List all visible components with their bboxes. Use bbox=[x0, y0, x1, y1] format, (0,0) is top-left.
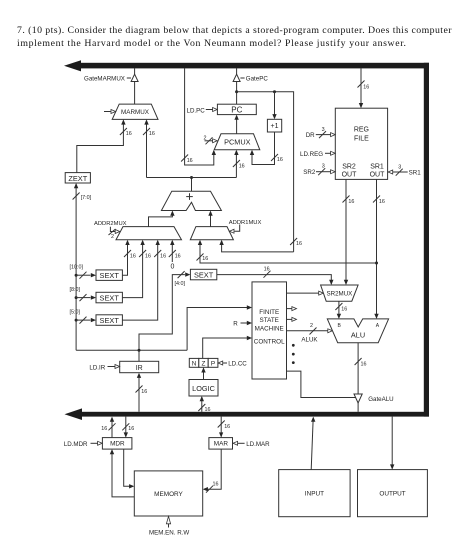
sign extender SEXT1 bbox=[96, 270, 122, 281]
svg-text:[4:0]: [4:0] bbox=[175, 281, 186, 287]
ADDR2MUX select input (2 bits) bbox=[110, 227, 115, 232]
svg-text:MEMORY: MEMORY bbox=[154, 491, 183, 498]
svg-text:LD.IR: LD.IR bbox=[89, 364, 105, 371]
wire bus down into MDR bbox=[125, 417, 127, 437]
wire bus down into MAR bbox=[220, 417, 222, 437]
wire adder output to PCMUX middle input bbox=[235, 151, 237, 178]
svg-text:SR2: SR2 bbox=[342, 163, 356, 170]
svg-text:LD.PC: LD.PC bbox=[187, 107, 206, 114]
PC register box bbox=[217, 104, 256, 114]
control ellipsis dots bbox=[292, 344, 295, 347]
svg-text:R: R bbox=[233, 321, 238, 328]
svg-text:N: N bbox=[192, 361, 197, 368]
wire INPUT up into bus bbox=[311, 418, 313, 470]
svg-text:[8:0]: [8:0] bbox=[70, 287, 81, 293]
svg-text:3: 3 bbox=[322, 127, 325, 133]
ALUK control wire (2 bits) to ALU bbox=[287, 330, 329, 332]
svg-text:STATE: STATE bbox=[260, 317, 279, 324]
FSM control stub 1 bbox=[287, 308, 293, 310]
svg-text:[5:0]: [5:0] bbox=[70, 309, 81, 315]
MEMORY box bbox=[134, 471, 202, 516]
wire SR2 OUT down to SR2MUX bbox=[345, 179, 347, 283]
svg-text:16: 16 bbox=[341, 306, 347, 312]
wire IR output up to distribution node bbox=[138, 350, 140, 361]
wire bus down into OUTPUT bbox=[391, 417, 393, 469]
svg-text:16: 16 bbox=[239, 164, 245, 170]
svg-text:SR1: SR1 bbox=[370, 163, 384, 170]
svg-text:16: 16 bbox=[205, 407, 211, 413]
svg-text:16: 16 bbox=[101, 426, 107, 432]
svg-text:PCMUX: PCMUX bbox=[224, 138, 250, 147]
wire PC down to ADDR1MUX right input bbox=[222, 241, 294, 252]
node SR1 branch junction bbox=[375, 262, 378, 265]
svg-text:16: 16 bbox=[160, 254, 166, 260]
svg-text:+1: +1 bbox=[271, 123, 279, 130]
svg-text:16: 16 bbox=[141, 389, 147, 395]
node SEXT2 tap bbox=[75, 296, 78, 299]
node adder output junction bbox=[190, 176, 193, 179]
ALU bbox=[327, 319, 388, 343]
svg-text:SR2MUX: SR2MUX bbox=[327, 291, 353, 298]
svg-text:2: 2 bbox=[111, 234, 114, 240]
LD.MAR control bbox=[233, 441, 238, 445]
svg-text:16: 16 bbox=[363, 85, 369, 91]
svg-text:16: 16 bbox=[128, 426, 134, 432]
svg-text:DR: DR bbox=[306, 132, 315, 139]
bottom bus (thick) with left arrowhead bbox=[78, 412, 429, 417]
ADDR2MUX mux bbox=[116, 227, 182, 240]
svg-text:FILE: FILE bbox=[354, 136, 369, 143]
sign extender SEXT3 bbox=[96, 315, 122, 326]
wire SEXT[10:0] up to ADDR2MUX input 1 bbox=[122, 241, 127, 275]
wire IR to SEXT4 riser bbox=[139, 275, 185, 351]
sign extender SEXT2 bbox=[96, 292, 122, 303]
svg-text:OUT: OUT bbox=[342, 172, 358, 179]
GateMARMUX tri-state buffer bbox=[134, 68, 136, 74]
wire IR[7:0] up into ZEXT bbox=[75, 184, 77, 350]
svg-text:0: 0 bbox=[170, 264, 174, 271]
top bus (thick) with left arrowhead bbox=[77, 63, 429, 69]
GateALU tri-state buffer bbox=[354, 394, 362, 403]
MARMUX mux bbox=[112, 104, 158, 119]
wire bus up into LOGIC bbox=[201, 397, 203, 412]
GatePC tri-state buffer bbox=[236, 68, 238, 74]
svg-text:FINITE: FINITE bbox=[259, 309, 279, 316]
wire NZP to FSM input bbox=[203, 338, 251, 358]
svg-text:ALUK: ALUK bbox=[301, 336, 318, 343]
wire ADDR2MUX output into adder left input bbox=[149, 212, 173, 227]
wire adder output up to junction bbox=[191, 178, 193, 192]
wire LOGIC output up to NZP bbox=[203, 369, 205, 380]
svg-text:16: 16 bbox=[149, 131, 155, 137]
svg-text:Z: Z bbox=[202, 361, 206, 368]
svg-text:MAR: MAR bbox=[214, 441, 229, 448]
svg-text:16: 16 bbox=[145, 254, 151, 260]
wire tap into SEXT2 bbox=[76, 297, 90, 299]
svg-text:2: 2 bbox=[310, 323, 313, 329]
wire FSM to SR2MUX select bbox=[287, 292, 319, 294]
MARMUX select input bbox=[104, 111, 111, 113]
wire +1 output to PCMUX right input bbox=[252, 132, 275, 165]
svg-text:ALU: ALU bbox=[351, 331, 365, 340]
svg-text:16: 16 bbox=[130, 254, 136, 260]
ADDR1MUX select input bbox=[234, 225, 239, 232]
ADDR1MUX mux bbox=[190, 227, 233, 240]
wire IR to FSM input bbox=[187, 308, 251, 351]
svg-text:SR1: SR1 bbox=[409, 169, 422, 176]
wire SR2MUX output to ALU input B bbox=[338, 301, 340, 317]
node SEXT3 tap bbox=[75, 319, 78, 322]
adder bbox=[161, 191, 221, 210]
wire constant 0 stub into ADDR2MUX input 4 bbox=[171, 241, 173, 262]
wire MDR down into MEMORY bbox=[124, 449, 133, 486]
svg-text:SEXT: SEXT bbox=[194, 270, 214, 279]
svg-text:IR: IR bbox=[136, 365, 143, 372]
svg-text:PC: PC bbox=[231, 105, 242, 114]
svg-text:16: 16 bbox=[213, 482, 219, 488]
svg-text:[10:0]: [10:0] bbox=[70, 264, 84, 270]
IR register box bbox=[120, 361, 159, 372]
svg-text:16: 16 bbox=[379, 199, 385, 205]
MAR register box bbox=[209, 438, 233, 450]
INPUT box bbox=[279, 470, 350, 517]
svg-text:P: P bbox=[211, 361, 215, 368]
left IR field column to IR bbox=[76, 349, 187, 351]
svg-text:ADDR2MUX: ADDR2MUX bbox=[94, 221, 127, 227]
svg-text:MEM.EN. R.W: MEM.EN. R.W bbox=[149, 529, 189, 536]
svg-text:ZEXT: ZEXT bbox=[68, 174, 87, 183]
svg-text:MACHINE: MACHINE bbox=[255, 325, 284, 332]
MEM.EN, R.W control bbox=[166, 516, 170, 524]
svg-text:OUT: OUT bbox=[370, 172, 386, 179]
svg-text:16: 16 bbox=[175, 254, 181, 260]
svg-text:LD.MAR: LD.MAR bbox=[246, 441, 270, 448]
svg-text:INPUT: INPUT bbox=[305, 491, 324, 498]
PCMUX mux bbox=[214, 134, 260, 150]
svg-text:16: 16 bbox=[277, 157, 283, 163]
svg-text:GatePC: GatePC bbox=[246, 75, 269, 82]
svg-text:3: 3 bbox=[398, 165, 401, 171]
svg-text:16: 16 bbox=[348, 199, 354, 205]
svg-text:LD.MDR: LD.MDR bbox=[64, 441, 88, 448]
wire PCMUX output into PC bbox=[236, 116, 238, 134]
FINITE STATE MACHINE box bbox=[252, 282, 287, 379]
ZEXT box bbox=[65, 173, 90, 183]
MDR register box bbox=[102, 438, 131, 450]
svg-text:implement the Harvard model or: implement the Harvard model or the Von N… bbox=[17, 38, 406, 49]
svg-text:LOGIC: LOGIC bbox=[192, 384, 215, 393]
svg-text:MARMUX: MARMUX bbox=[121, 109, 150, 116]
wire MEMORY out to MDR bbox=[112, 450, 134, 497]
node IR output junction bbox=[138, 349, 141, 352]
wire FSM to GateALU control bbox=[287, 371, 356, 397]
svg-text:MDR: MDR bbox=[110, 441, 125, 448]
svg-text:OUTPUT: OUTPUT bbox=[379, 491, 405, 498]
svg-text:SR2: SR2 bbox=[303, 169, 316, 176]
wire bus down to REG FILE bbox=[360, 68, 362, 107]
wire junction down into +1 bbox=[274, 92, 276, 118]
GatePC label bbox=[240, 77, 244, 79]
wire bus up into IR bbox=[138, 374, 140, 412]
LOGIC box bbox=[189, 380, 218, 397]
svg-text:[7:0]: [7:0] bbox=[81, 195, 92, 201]
LD.CC control bbox=[218, 361, 223, 365]
wire adder output horizontal run bbox=[147, 177, 237, 179]
wire MDR up into bus bbox=[111, 418, 113, 438]
wire MAR down into MEMORY bbox=[204, 449, 221, 489]
svg-text:GateALU: GateALU bbox=[368, 396, 393, 403]
REG FILE box bbox=[335, 108, 387, 179]
wire ADDR1MUX output into adder right input bbox=[210, 212, 212, 227]
right bus segment (thick vertical) bbox=[424, 63, 429, 417]
wire SEXT4 output to SR2MUX bbox=[217, 275, 331, 284]
node SEXT1 tap bbox=[75, 274, 78, 277]
svg-text:SEXT: SEXT bbox=[100, 293, 120, 302]
+1 incrementer box bbox=[267, 119, 281, 132]
wire tap into SEXT3 bbox=[76, 319, 90, 321]
svg-text:16: 16 bbox=[264, 266, 270, 272]
node +1 feed junction bbox=[273, 90, 276, 93]
svg-text:REG: REG bbox=[354, 127, 369, 134]
wire SR1 OUT down to ALU input A bbox=[376, 179, 378, 317]
svg-text:LD.CC: LD.CC bbox=[228, 361, 247, 368]
wire tap into SEXT1 bbox=[76, 274, 90, 276]
wire adder line to MARMUX right input bbox=[146, 121, 148, 178]
svg-text:GateMARMUX: GateMARMUX bbox=[84, 75, 125, 82]
node PC output junction bbox=[235, 90, 238, 93]
svg-text:16: 16 bbox=[187, 158, 193, 164]
FSM control stub 2 bbox=[287, 318, 293, 320]
wire bus to PCMUX left input bbox=[185, 68, 214, 165]
svg-text:SEXT: SEXT bbox=[100, 316, 120, 325]
svg-text:LD.REG: LD.REG bbox=[300, 151, 323, 158]
wire ZEXT to MARMUX left input bbox=[77, 121, 124, 173]
wire SEXT[8:0] up to ADDR2MUX input 2 bbox=[122, 241, 142, 298]
svg-text:CONTROL: CONTROL bbox=[254, 339, 285, 346]
svg-text:16: 16 bbox=[361, 361, 367, 367]
SR2MUX mux bbox=[321, 285, 359, 301]
svg-text:16: 16 bbox=[202, 256, 208, 262]
svg-text:16: 16 bbox=[224, 424, 230, 430]
svg-text:ADDR1MUX: ADDR1MUX bbox=[229, 220, 262, 226]
OUTPUT box bbox=[358, 470, 428, 517]
wire SEXT[5:0] up to ADDR2MUX input 3 bbox=[122, 241, 157, 320]
wire SR1 to ADDR1MUX left input bbox=[200, 241, 377, 263]
svg-text:7. (10 pts). Consider the diag: 7. (10 pts). Consider the diagram below … bbox=[17, 25, 452, 36]
sign extender SEXT4 bbox=[190, 269, 216, 280]
svg-text:16: 16 bbox=[126, 131, 132, 137]
svg-text:SEXT: SEXT bbox=[100, 271, 120, 280]
svg-text:16: 16 bbox=[296, 241, 302, 247]
wire ALU output down to GateALU bbox=[357, 343, 359, 394]
wire PC junction to +1 feed and ADDR1MUX riser bbox=[237, 92, 294, 252]
N Z P condition code boxes bbox=[189, 358, 199, 367]
